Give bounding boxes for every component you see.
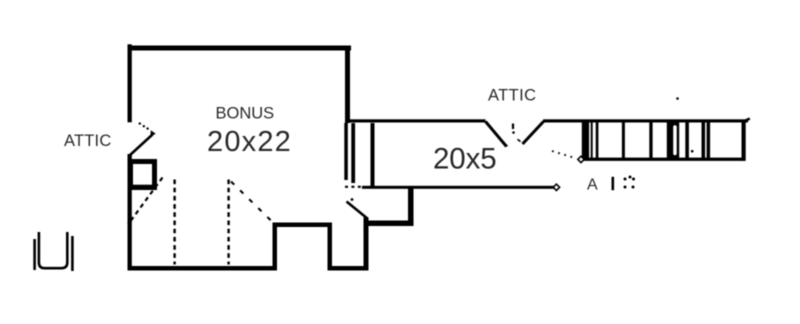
svg-text:BONUS: BONUS <box>216 105 275 123</box>
svg-text:ATTIC: ATTIC <box>488 87 536 105</box>
svg-text:A: A <box>587 177 598 194</box>
svg-text:20x22: 20x22 <box>207 126 292 158</box>
svg-text:ATTIC: ATTIC <box>64 132 111 150</box>
svg-text:20x5: 20x5 <box>433 143 497 176</box>
